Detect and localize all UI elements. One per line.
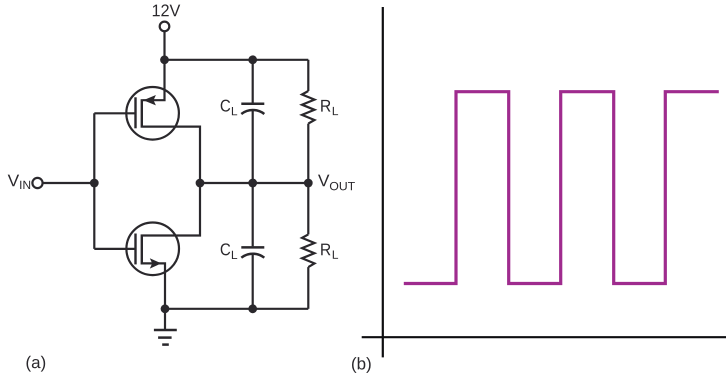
capacitor CL1 curved plate: [241, 110, 264, 114]
node supply CL1 junction: [248, 55, 257, 64]
label CL1 sub: [232, 107, 237, 115]
terminal VIN open circle: [32, 178, 42, 188]
label RL2 sub: [333, 251, 338, 259]
terminal 12V open circle: [160, 22, 170, 32]
wire RL1 bottom lead: [307, 124, 309, 183]
transistor NMOS body: [126, 223, 179, 276]
transistor NMOS gate bar: [134, 234, 136, 265]
wire NMOS drain lead to output node: [143, 183, 200, 236]
transistor PMOS body: [126, 87, 179, 140]
waveform square wave VOUT: [404, 92, 719, 284]
arrow PMOS source pointing in: [143, 95, 156, 105]
node output CL junction: [248, 179, 257, 188]
node output drain junction: [196, 179, 205, 188]
wire RL1 top lead: [307, 60, 309, 91]
wire CL1 bottom lead: [252, 111, 254, 184]
wire ground stub: [164, 309, 166, 330]
wire bottom ground rail: [165, 308, 308, 310]
node ground junction: [161, 304, 170, 313]
wire PMOS gate lead: [94, 112, 135, 114]
wire 12V terminal to supply node: [163, 31, 165, 60]
node supply junction: [160, 55, 169, 64]
label 12V: [153, 4, 180, 16]
label VOUT sub: [330, 182, 355, 191]
wire gate bus vertical: [93, 113, 95, 249]
label RL1 sub: [333, 107, 338, 115]
wire top supply rail: [165, 59, 309, 61]
transistor PMOS channel bar: [141, 99, 143, 128]
label VIN main: [8, 175, 19, 187]
resistor RL2 zigzag: [302, 234, 315, 267]
graph horizontal axis: [362, 336, 726, 338]
label CL2 sub: [232, 251, 237, 259]
wire VIN terminal to gate junction: [44, 182, 95, 184]
node VOUT junction: [304, 179, 313, 188]
arrow NMOS source pointing out: [150, 258, 162, 268]
label (a): [27, 356, 46, 372]
node ground CL2 junction: [248, 304, 257, 313]
wire output row VOUT: [200, 182, 308, 184]
capacitor CL1 top plate: [241, 102, 264, 105]
label CL1 main: [221, 100, 230, 112]
wire NMOS gate lead: [94, 248, 135, 250]
capacitor CL2 curved plate: [241, 254, 264, 258]
wire RL2 bottom lead: [307, 267, 309, 309]
transistor NMOS channel bar: [141, 234, 143, 264]
label (b): [352, 357, 371, 373]
label RL1 main: [321, 100, 330, 112]
wire NMOS source lead to ground rail: [143, 263, 165, 308]
wire CL1 top lead: [252, 60, 254, 103]
label VOUT main: [318, 175, 329, 187]
graph vertical axis: [382, 7, 384, 357]
label VIN sub: [20, 181, 30, 189]
resistor RL1 zigzag: [302, 91, 315, 124]
label RL2 main: [321, 244, 330, 256]
wire PMOS source lead to supply: [143, 60, 165, 100]
capacitor CL2 top plate: [241, 246, 264, 249]
node gate junction: [90, 179, 99, 188]
wire PMOS drain lead to output node: [143, 127, 200, 183]
label CL2 main: [221, 243, 230, 255]
wire RL2 top lead: [307, 183, 309, 234]
wire CL2 top lead: [252, 183, 254, 246]
transistor PMOS gate bar: [134, 97, 136, 128]
wire CL2 bottom lead: [252, 254, 254, 309]
ground symbol: [154, 330, 177, 345]
